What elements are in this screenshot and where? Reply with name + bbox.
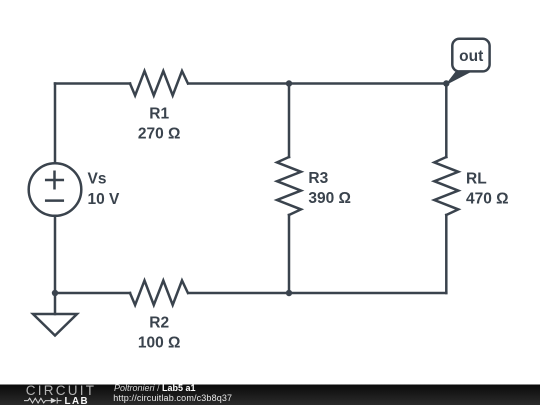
svg-text:R3: R3: [308, 170, 328, 187]
svg-text:Poltronieri / Lab5 a1: Poltronieri / Lab5 a1: [114, 383, 196, 393]
wire top-middle horizontal: [189, 82, 447, 85]
svg-text:out: out: [459, 48, 483, 65]
svg-text:RL: RL: [466, 171, 487, 188]
svg-text:10 V: 10 V: [88, 191, 121, 208]
svg-text:R2: R2: [149, 314, 169, 331]
wire top-left horizontal: [55, 82, 130, 85]
svg-text:http://circuitlab.com/c3b8q37: http://circuitlab.com/c3b8q37: [113, 393, 232, 403]
wire left vertical lower: [54, 216, 57, 293]
wire bottom-left horizontal: [55, 292, 130, 295]
ground: [33, 293, 77, 336]
wire left vertical upper: [54, 84, 57, 164]
svg-text:R1: R1: [149, 106, 169, 123]
svg-text:LAB: LAB: [65, 396, 90, 405]
svg-text:100 Ω: 100 Ω: [138, 335, 181, 352]
wire R3 branch lower: [288, 215, 291, 293]
voltage source Vs: [29, 163, 82, 216]
node out junction top right: [443, 80, 449, 86]
resistor R1: [130, 71, 188, 96]
svg-text:390 Ω: 390 Ω: [308, 190, 351, 207]
wire R3 branch upper: [288, 84, 291, 158]
svg-text:Vs: Vs: [88, 171, 107, 188]
node junction R1/R3 top: [286, 80, 292, 86]
node R3 bottom junction: [286, 290, 292, 296]
wire bottom-middle horizontal: [189, 292, 447, 295]
wire RL branch lower: [445, 215, 448, 293]
wire RL branch upper: [445, 84, 448, 158]
footer bar: [0, 385, 540, 405]
svg-text:470 Ω: 470 Ω: [466, 191, 509, 208]
svg-text:270 Ω: 270 Ω: [138, 126, 181, 143]
resistor R3: [277, 157, 301, 215]
resistor R2: [130, 281, 188, 306]
resistor RL: [434, 157, 458, 215]
node ground junction: [52, 290, 58, 296]
CircuitLab logo squiggle: [24, 398, 62, 404]
out flag: [447, 39, 490, 84]
